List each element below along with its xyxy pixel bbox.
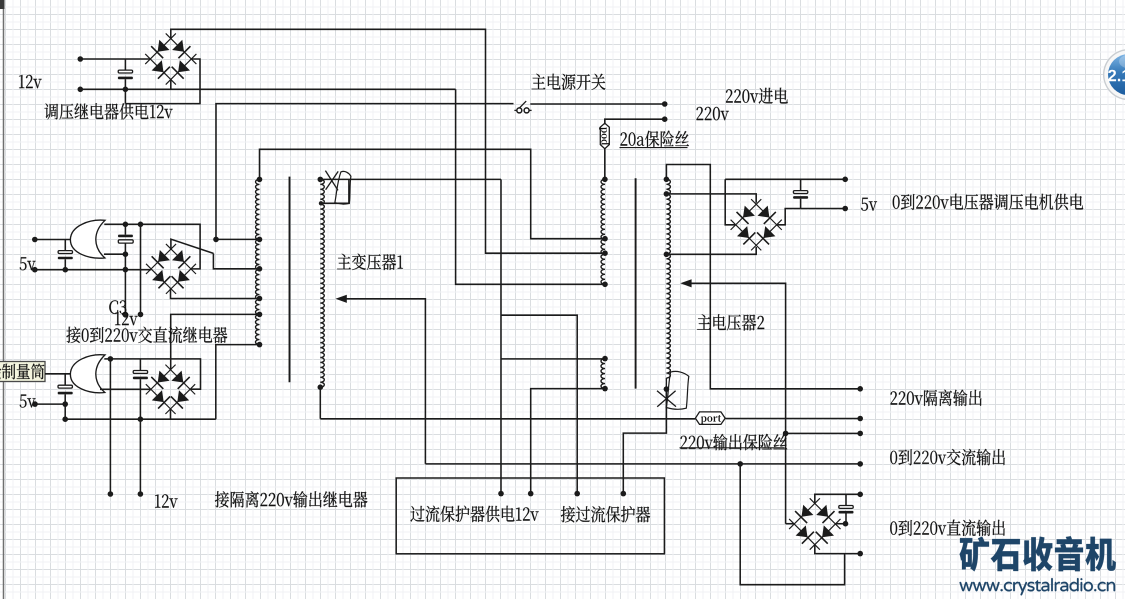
label 0到220v交流输出	[890, 449, 1005, 465]
motor supply top rail	[725, 178, 845, 180]
terminal 12v bottom	[78, 87, 84, 93]
wire T2 tap to bridge D4 top	[666, 194, 756, 203]
relay K2 lower horn rail	[100, 388, 151, 390]
terminal 12v top	[78, 56, 84, 62]
junction dot wiper feed	[783, 431, 789, 437]
box 过流保护器	[396, 478, 664, 554]
terminal 220v line	[662, 101, 668, 107]
wire T1 secondary to overcurrent box stub1 and stub3	[500, 179, 502, 493]
watermark 矿石收音机	[960, 536, 1116, 571]
wire 5v lower rail to bridge D2	[35, 269, 151, 271]
capacitor C5 mid branch	[139, 359, 141, 371]
T2 primary taps	[602, 177, 608, 183]
label 主电源开关	[532, 74, 606, 90]
label 220v输出保险丝	[681, 434, 788, 450]
junction dot C5 on fuse rail	[138, 416, 144, 422]
junction dot C2 bottom	[63, 267, 69, 273]
junction dot C3 top	[123, 222, 129, 228]
wiper flag F1	[335, 171, 351, 204]
wire bridge D1 top to main switch rail	[171, 29, 605, 253]
wire K1 rail branch	[140, 224, 142, 314]
junction dot C4 bottom	[62, 401, 68, 407]
junction dot K2 horn	[108, 356, 114, 362]
relay K1 top rail	[104, 224, 200, 269]
label 调压继电器供电12v	[44, 103, 172, 119]
terminal motor supply -	[842, 206, 848, 212]
terminal isolated output bottom	[857, 416, 863, 422]
junction dot K1 rail	[138, 222, 144, 228]
wire relay K1 armature	[171, 239, 214, 253]
label 20a保险丝	[621, 131, 690, 147]
relay K2 top rail	[104, 359, 200, 389]
wire T1 tap bottom to output fuse rail	[216, 345, 260, 420]
arrow annotation to T2	[680, 279, 691, 287]
bridge rectifier D4	[731, 199, 762, 230]
label 5v lower	[20, 395, 36, 408]
underline 220v输出保险丝	[680, 447, 785, 449]
relay coil K1 crescent	[70, 220, 105, 258]
transformer T2 primary winding lower	[601, 359, 605, 389]
relay coil K2 crescent	[70, 355, 105, 393]
bridge rectifier D5	[789, 498, 820, 529]
wire fuse F1 bottom to T2	[604, 149, 606, 180]
arrow annotation to T1	[336, 295, 347, 303]
wiper cross X1	[325, 171, 338, 191]
wire fuse F2 to output terminal	[725, 418, 860, 420]
wire T2 tap to bridge D4 bottom	[666, 247, 756, 254]
wire T1 wiper loop	[321, 179, 349, 203]
bridge rectifier D3	[146, 365, 176, 395]
capacitor C7	[845, 494, 847, 505]
terminal 12v out b	[138, 491, 144, 497]
wire C5 branch to 12v terminal	[139, 419, 141, 494]
terminal DC output +	[857, 492, 863, 498]
wire C4 to fuse rail	[64, 404, 66, 419]
wire feed to bridge D5 left	[786, 523, 795, 525]
wire left fuse rail	[65, 418, 216, 420]
tooltip 绘制量筒	[0, 362, 45, 382]
fuse F1 pod 20a	[600, 123, 609, 149]
wire 5v to C4	[35, 403, 65, 405]
junction dot capacitor C1 bottom	[123, 87, 129, 93]
wire wiper feed to AC terminal	[786, 432, 861, 434]
wire bridge D1 rail to T2 tap	[456, 89, 605, 284]
wire bridge D5 bottom rail	[815, 545, 860, 554]
wiper cross X2	[657, 391, 676, 407]
wire T1 secondary top rail	[320, 178, 501, 180]
label 12v top-left	[19, 75, 41, 88]
label 5v right	[861, 198, 877, 211]
label 接隔离220v输出继电器	[215, 491, 368, 508]
junction dot C3 branch on 5v rail	[123, 267, 129, 273]
wire T2 primary lower tap to relay K2 rail	[501, 358, 605, 360]
terminal isolated output top	[857, 386, 863, 392]
wire bridge D1 bottom to rail	[170, 80, 172, 90]
label 220v进电	[726, 88, 788, 104]
capacitor C3	[124, 224, 126, 234]
T1 primary top tap dot	[257, 177, 263, 183]
label 接0到220v交直流继电器	[66, 327, 227, 344]
label 过流保护器供电12v	[410, 506, 538, 522]
wire bridge D2 bottom to T1 tap	[171, 288, 260, 299]
capacitor C2	[64, 240, 66, 251]
terminal 5v lower	[32, 267, 38, 273]
junction dot AC rail to DC bridge	[737, 461, 743, 467]
box stub dots	[498, 491, 504, 497]
label 5v upper	[20, 257, 36, 270]
junction dot relay K1 pole	[213, 237, 219, 243]
terminal AC wiper	[857, 431, 863, 437]
wire T1 top to T2 tap via long route	[260, 149, 606, 238]
fuse F2 port	[695, 412, 725, 425]
wire bridge D3 bottom to fuse rail	[170, 409, 172, 419]
wire fuse F1 top to 220v terminal	[605, 119, 665, 123]
wire T2 primary bottom to box stub2	[531, 389, 605, 494]
underline 20a保险丝	[620, 147, 688, 149]
wire 12v bottom rail	[80, 88, 455, 90]
canvas left edge line	[3, 0, 5, 599]
wire K2 horn to 12v terminal	[109, 359, 111, 494]
wire bridge D5 right corner	[835, 523, 846, 525]
switch S1	[514, 109, 516, 111]
transformer T1 core	[289, 177, 291, 383]
label 220v	[697, 107, 729, 120]
terminal motor supply +	[842, 177, 848, 183]
terminal 5v lower2	[32, 401, 38, 407]
label 主电压器2	[697, 314, 764, 330]
junction dot fuse rail left end	[62, 416, 68, 422]
watermark www.crystalradio.cn	[960, 578, 1116, 595]
capacitor C4	[64, 374, 66, 385]
label 接过流保护器	[561, 506, 650, 523]
junction dot C7 bottom	[843, 521, 849, 527]
wire bridge D5 top rail	[815, 494, 860, 503]
bridge rectifier D1	[145, 33, 176, 64]
canvas top-left corner mark	[0, 0, 5, 9]
capacitor C6	[800, 179, 802, 190]
capacitor C1	[124, 59, 126, 70]
terminal AC output	[857, 461, 863, 467]
wire main fuse rail to port fuse	[320, 418, 695, 420]
wire pole to T1 tap	[216, 238, 260, 240]
transformer T2 secondary winding	[666, 179, 670, 378]
wire T2 secondary top to isolated output	[666, 165, 860, 389]
terminal K1 branch end	[138, 312, 144, 318]
T2 secondary taps	[664, 177, 670, 183]
wire switch to 220v terminal	[530, 103, 664, 105]
terminal C3 branch end	[123, 312, 129, 318]
label 0到220v直流输出	[890, 520, 1005, 536]
wire bridge D1 right corner loop	[125, 59, 200, 104]
dot C3 mid	[123, 251, 129, 257]
label 主变压器1	[337, 254, 403, 271]
wire 12v top to bridge D1	[80, 58, 150, 60]
label C3	[109, 300, 126, 314]
bridge rectifier D2	[146, 244, 176, 274]
wire tooltip to relay coil K2	[45, 373, 70, 375]
relay K1 lower horn rail	[104, 253, 125, 255]
wire relay K2 pole to T1 tap	[171, 314, 260, 370]
label 12v bottom	[155, 494, 178, 507]
wire T1 secondary bottom to fuse F2	[319, 387, 321, 419]
T1 secondary top tap dot	[318, 177, 324, 183]
terminal 220v neutral	[662, 116, 668, 122]
junction dot T1 wiper return	[319, 201, 323, 205]
wire relay pole K1	[216, 104, 514, 240]
terminal 5v upper	[32, 237, 38, 243]
wire D4 left corner to top rail	[725, 179, 735, 225]
wire 5v to relay coil K1	[35, 239, 71, 241]
transformer T2 primary winding upper	[601, 179, 605, 284]
transformer T1 primary winding	[255, 179, 259, 344]
label 12v mid	[115, 312, 138, 325]
T1 taps and dots	[257, 237, 263, 243]
terminal 12v out a	[108, 491, 114, 497]
label 220v隔离输出	[891, 390, 982, 406]
label 0到220v电压器调压电机供电	[893, 194, 1083, 210]
T1 secondary bottom dot	[318, 384, 324, 390]
wire T2 wiper to output fuse rail	[623, 389, 666, 494]
transformer T2 core	[635, 178, 637, 388]
terminal DC output -	[857, 551, 863, 557]
wire AC rail to bridge D5 loop	[740, 464, 844, 585]
wire AC output rail	[425, 463, 860, 465]
transformer T1 secondary winding	[320, 179, 324, 387]
wiper flag F2	[666, 371, 689, 409]
motor supply bottom rail	[776, 209, 845, 225]
